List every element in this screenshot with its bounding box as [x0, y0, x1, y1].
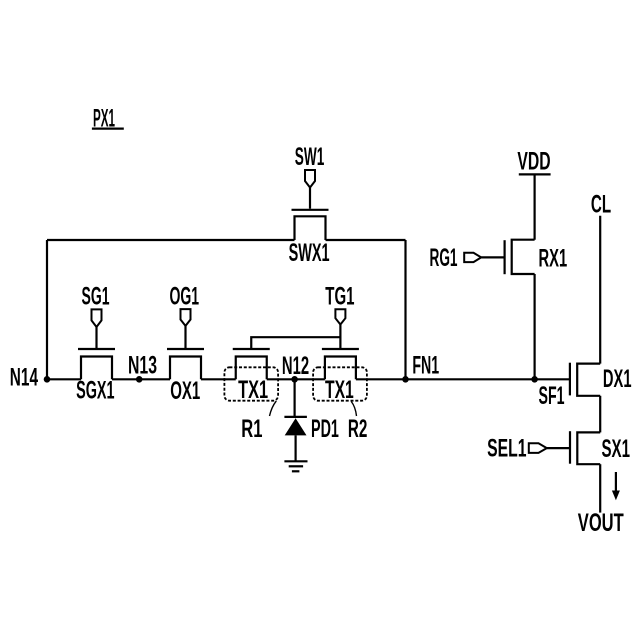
wire N14 to SGX1 — [47, 378, 81, 380]
svg-text:RG1: RG1 — [430, 244, 458, 272]
svg-text:VOUT: VOUT — [578, 509, 624, 537]
svg-text:SGX1: SGX1 — [76, 377, 114, 405]
svg-text:CL: CL — [591, 190, 611, 218]
transistor RX1 channel — [512, 240, 535, 274]
terminal TG1 pentagon — [335, 309, 345, 324]
svg-text:DX1: DX1 — [603, 365, 632, 393]
transistor OX1 gate bar — [167, 348, 204, 350]
svg-text:TG1: TG1 — [325, 283, 354, 311]
node FN1 junction dot — [402, 376, 409, 383]
wire right vertical (down to FN1) — [404, 240, 406, 379]
wire CL vertical — [599, 216, 601, 364]
svg-text:OX1: OX1 — [170, 377, 200, 405]
node SF1 junction dot — [531, 376, 538, 383]
svg-text:RX1: RX1 — [539, 245, 568, 273]
terminal SG1 pentagon — [92, 309, 102, 327]
wire top-left horizontal — [47, 239, 295, 241]
svg-text:SWX1: SWX1 — [289, 239, 330, 267]
transistor TX1 right channel — [325, 357, 356, 380]
wire OG1 gate stem — [184, 326, 186, 348]
transistor TX1 left channel — [236, 357, 267, 380]
photodiode PD1 triangle — [285, 418, 307, 435]
wire PD1 anode stem — [294, 379, 296, 417]
svg-text:OG1: OG1 — [170, 283, 200, 311]
wire TX1 left to TX1 right (through N12) — [267, 378, 325, 380]
transistor SWX1 channel — [295, 216, 326, 240]
transistor SGX1 channel — [81, 357, 112, 380]
transistor RX1 gate bar — [504, 240, 506, 274]
transistor OX1 channel — [170, 357, 201, 380]
svg-text:VDD: VDD — [517, 147, 550, 175]
wire VDD to RX1 drain — [533, 174, 535, 239]
svg-text:N14: N14 — [10, 364, 38, 392]
svg-text:SEL1: SEL1 — [487, 435, 526, 463]
transistor TX1 right gate bar — [322, 348, 359, 350]
svg-text:SF1: SF1 — [539, 382, 565, 410]
arrow head VOUT — [612, 491, 620, 501]
wire TX1 right to DX1 gate (through FN1, SF1) — [356, 378, 570, 380]
wire RX1 source to SF1 — [533, 274, 535, 379]
svg-text:TX1: TX1 — [238, 376, 268, 404]
power VDD underline — [519, 173, 551, 175]
transistor SGX1 gate bar — [78, 348, 115, 350]
svg-text:PD1: PD1 — [311, 415, 339, 443]
box R1 dashed region around left TX1 — [224, 367, 278, 400]
node N13 junction dot — [136, 376, 143, 383]
leader R1 — [270, 401, 277, 416]
svg-text:TX1: TX1 — [325, 376, 354, 404]
wire RG1 gate lead — [481, 256, 503, 258]
transistor DX1 gate bar — [569, 363, 571, 396]
node N14 junction dot — [44, 376, 51, 383]
wire SGX1 to OX1 (through N13) — [112, 378, 170, 380]
wire TG1 branch to left gate — [251, 337, 340, 348]
wire TG1 gate stem — [339, 325, 341, 349]
wire SX1 source output — [599, 464, 601, 512]
terminal RG1 pentagon — [464, 253, 481, 262]
svg-text:FN1: FN1 — [412, 351, 439, 379]
wire left vertical (N14 up) — [46, 240, 48, 379]
transistor TX1 left gate bar — [233, 348, 270, 350]
svg-text:SW1: SW1 — [295, 143, 325, 171]
svg-text:N12: N12 — [282, 352, 309, 380]
label PX1 underline — [92, 128, 124, 130]
terminal OG1 pentagon — [181, 309, 191, 326]
leader R2 — [351, 402, 356, 417]
svg-text:R2: R2 — [348, 415, 368, 443]
terminal SW1 pentagon — [305, 170, 315, 188]
node N12 junction dot — [291, 376, 298, 383]
wire SEL1 gate lead — [547, 447, 569, 449]
wire PD1 to ground — [295, 435, 297, 461]
transistor SWX1 gate bar — [292, 209, 329, 211]
transistor DX1 channel — [577, 364, 600, 396]
wire DX1 to SX1 — [599, 396, 601, 433]
svg-text:R1: R1 — [241, 415, 262, 443]
svg-text:SX1: SX1 — [602, 435, 631, 463]
capacitor-bar: PD1 cathode bar — [284, 416, 307, 418]
wire OX1 to TX1 left — [201, 378, 236, 380]
wire SG1 gate stem — [95, 327, 97, 348]
box R2 dashed region around right TX1 — [313, 367, 367, 400]
svg-text:SG1: SG1 — [82, 283, 110, 311]
transistor SX1 gate bar — [569, 431, 571, 464]
svg-text:N13: N13 — [128, 352, 157, 380]
transistor SX1 channel — [577, 432, 600, 464]
terminal SEL1 pentagon — [529, 443, 547, 453]
wire SW1 gate stem — [309, 188, 311, 209]
wire top-right horizontal — [326, 239, 406, 241]
ground — [284, 460, 307, 462]
wire VOUT arrow shaft — [615, 472, 617, 491]
